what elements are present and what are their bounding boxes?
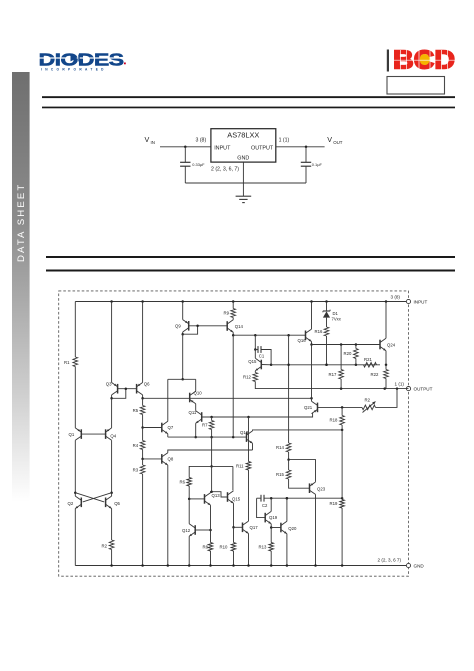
svg-text:1 (1): 1 (1) — [395, 381, 405, 386]
wire Q12 emitter to ground rail — [188, 536, 190, 565]
svg-text:Q10: Q10 — [194, 390, 203, 395]
svg-text:R15: R15 — [276, 472, 284, 477]
wire Q13 collector to Q15 base — [211, 492, 228, 497]
wire Q24 emitter to node Q — [385, 351, 387, 365]
svg-text:OUT: OUT — [333, 140, 343, 145]
transistor Q23 — [310, 482, 316, 494]
wire collector bus of Q7/Q9 — [168, 378, 196, 380]
svg-text:2 (2, 3, 6 7): 2 (2, 3, 6 7) — [378, 558, 402, 563]
resistor R5 — [140, 406, 145, 415]
svg-text:R16: R16 — [315, 329, 323, 334]
wire node J to Q23 emitter — [289, 460, 316, 482]
wire Q1 collector down — [74, 440, 76, 492]
svg-text:Q6: Q6 — [144, 381, 150, 386]
wire drive line node L to Q24 base — [312, 344, 381, 346]
wire Q15 base node — [261, 364, 271, 366]
resistor R16 — [324, 327, 329, 336]
wire Q16 emitter to node L — [311, 342, 313, 345]
resistor R4 — [140, 441, 145, 450]
svg-text:3 (8): 3 (8) — [391, 294, 401, 299]
svg-text:R19: R19 — [330, 501, 338, 506]
wire node E to Q7 base — [143, 427, 162, 429]
wire Q5 emitter to R2 — [111, 509, 113, 541]
resistor R6 — [187, 478, 192, 487]
capacitor C2 — [257, 497, 261, 499]
svg-text:R6: R6 — [180, 480, 186, 485]
wire divider column from Vref line — [288, 335, 290, 443]
transistor Q4 — [106, 428, 112, 440]
wire D1 to R16 — [326, 318, 328, 327]
wire Q7 emitter to bias line — [167, 434, 169, 437]
wire R11 to Q17 collector — [248, 470, 250, 521]
wire Vref column down — [232, 335, 234, 437]
svg-text:V: V — [145, 135, 150, 144]
wire R15 to Q23 base — [289, 479, 310, 488]
transistor Q9 — [183, 320, 189, 332]
svg-text:OUTPUT: OUTPUT — [251, 145, 274, 151]
svg-text:Q4: Q4 — [110, 433, 116, 438]
transistor Q1 — [75, 428, 81, 440]
wire Q9 collector down branch — [182, 334, 184, 379]
svg-text:R14: R14 — [276, 445, 284, 450]
transistor Q3 — [112, 383, 118, 395]
svg-text:7Vxx: 7Vxx — [332, 317, 342, 322]
wire R5 to node E — [142, 415, 144, 428]
resistor R12 — [253, 373, 258, 382]
wire Q18 collector to R18/R19 node — [253, 430, 343, 431]
svg-text:GND: GND — [414, 564, 425, 569]
svg-text:Q13: Q13 — [212, 493, 221, 498]
wire Q3 diode connection — [112, 389, 126, 399]
wire Q5 collector stub — [111, 493, 113, 496]
svg-text:R13: R13 — [259, 545, 267, 550]
svg-text:Q19: Q19 — [269, 515, 278, 520]
resistor R22 — [385, 365, 387, 370]
wire R7 bottom — [211, 430, 213, 438]
svg-text:Q17: Q17 — [250, 525, 259, 530]
svg-text:IN: IN — [151, 140, 155, 145]
resistor R9 — [231, 309, 236, 318]
wire Q7 collector riser — [167, 379, 169, 421]
svg-text:C2: C2 — [262, 503, 268, 508]
svg-text:R3: R3 — [133, 468, 139, 473]
svg-text:INPUT: INPUT — [414, 299, 428, 304]
wire Q8 emitter to ground rail — [167, 465, 169, 565]
wire node B to Q4 emitter — [111, 398, 113, 428]
wire Q13 base — [189, 498, 204, 500]
input terminal 3 (8) — [406, 299, 410, 303]
wire node L down to Q21 collector node — [311, 345, 313, 399]
gray DATA SHEET sidebar — [12, 72, 30, 502]
wire C2 left to Q19 base — [257, 498, 266, 517]
resistor R10 — [233, 527, 235, 542]
wire Q24 collector to rail — [385, 302, 387, 339]
svg-text:R8: R8 — [203, 545, 209, 550]
svg-text:OUTPUT: OUTPUT — [414, 387, 433, 392]
wire Q17 base — [234, 526, 243, 528]
wire corner down to Q15 collector — [232, 466, 234, 490]
wire node E to R4 — [142, 428, 144, 441]
transistor Q13 — [205, 493, 211, 505]
svg-text:DIODES: DIODES — [39, 50, 124, 70]
transistor Q17 — [243, 521, 249, 533]
svg-text:Q1: Q1 — [69, 432, 75, 437]
svg-text:0.1μF: 0.1μF — [312, 162, 323, 167]
wire R7 node down to error line — [211, 437, 213, 466]
wire Q18 emitter to Q8 collector line — [252, 443, 254, 450]
svg-text:3 (8): 3 (8) — [196, 137, 207, 143]
svg-text:Q5: Q5 — [114, 501, 120, 506]
wire Q15 emitter to R12 — [254, 371, 256, 373]
wire R19 to ground rail — [341, 508, 343, 566]
wire Q6/Q10 base line to Q21 collector — [143, 397, 312, 399]
resistor R2 — [109, 540, 114, 550]
transistor Q10 — [190, 391, 196, 403]
wire regulator output to VOUT — [276, 146, 325, 148]
svg-text:Q2: Q2 — [68, 501, 74, 506]
svg-text:2 (2, 3, 6, 7): 2 (2, 3, 6, 7) — [211, 167, 239, 173]
svg-text:V: V — [327, 135, 332, 144]
node rail junction C — [141, 300, 144, 303]
wire R8 to ground rail — [210, 551, 212, 566]
transistor Q19 — [265, 511, 271, 523]
wire bottom ground rail — [75, 565, 408, 567]
wire Q2 emitter to ground rail — [74, 509, 76, 566]
node rail junction A — [110, 300, 113, 303]
wire R9 to Q14 collector — [232, 318, 234, 320]
wire R12 to output line — [255, 382, 408, 389]
mid-page double rule — [46, 256, 455, 258]
svg-text:Q21: Q21 — [304, 405, 313, 410]
svg-text:Q16: Q16 — [298, 338, 307, 343]
svg-text:Q20: Q20 — [288, 526, 297, 531]
wire Q3-Q6 common base — [118, 388, 137, 390]
wire VIN to regulator input — [160, 146, 211, 148]
svg-text:Q11: Q11 — [189, 410, 197, 415]
ground terminal 2 (2,3,6,7) — [406, 563, 410, 567]
wire cross-couple Q2/Q5 — [75, 493, 104, 502]
svg-text:GND: GND — [237, 156, 249, 162]
svg-text:Q14: Q14 — [235, 324, 244, 329]
wire R6 bottom to Q13 base node — [188, 486, 190, 499]
wire R7 node to Q13 collector line — [211, 466, 213, 491]
wire R18 to node R — [341, 425, 343, 430]
svg-text:R1: R1 — [64, 360, 70, 365]
wire node F to R3 — [142, 459, 144, 465]
svg-text:R4: R4 — [133, 443, 139, 448]
capacitor 0.1uF output cap — [305, 147, 307, 163]
resistor R8 — [208, 543, 213, 552]
internal schematic dashed border — [59, 291, 409, 576]
zener diode D1 — [326, 302, 328, 312]
svg-text:R7: R7 — [202, 422, 208, 427]
wire C2 right to R19 top — [264, 497, 342, 499]
wire R2 to output line — [376, 389, 398, 408]
svg-text:DATA SHEET: DATA SHEET — [16, 183, 27, 262]
wire Q14 emitter corner — [232, 332, 234, 335]
wire Q13 emitter to R8 — [210, 505, 212, 542]
transistor Q7 — [162, 421, 168, 433]
transistor Q8 — [162, 453, 168, 465]
wire Q10 emitter to Q11 collector — [195, 404, 197, 411]
wire Q12 base to R8 node — [195, 529, 210, 531]
wire node J to R15 — [288, 460, 290, 470]
capacitor 0.33uF input cap — [184, 147, 186, 163]
wire reference line to output stage — [271, 364, 380, 366]
wire R14 to node J — [288, 452, 290, 460]
resistor R13 — [270, 528, 272, 543]
wire rail to R9 — [232, 302, 234, 309]
empty part-number box — [387, 77, 445, 95]
wire Q21 collector stub — [311, 398, 313, 401]
node rail junction P — [385, 300, 388, 303]
wire R2 to ground rail — [111, 550, 113, 566]
wire rail to Q3 emitter — [111, 302, 113, 383]
svg-text:C1: C1 — [259, 354, 265, 359]
wire left supply branch — [74, 302, 76, 358]
transistor Q5 — [106, 496, 112, 508]
svg-text:INCORPORATED: INCORPORATED — [41, 68, 107, 72]
wire Q4 collector down — [111, 440, 113, 492]
svg-text:AS78LXX: AS78LXX — [227, 130, 259, 139]
wire Q17 emitter to ground rail — [248, 534, 250, 566]
node rail junction H — [232, 300, 235, 303]
wire Q9-Q14 base line — [189, 325, 228, 327]
svg-text:0.33μF: 0.33μF — [192, 162, 205, 167]
svg-text:R11: R11 — [236, 463, 244, 468]
node rail junction M — [325, 300, 328, 303]
wire Q19 emitter to Q20 base — [270, 524, 272, 528]
svg-text:R18: R18 — [330, 418, 338, 423]
ground symbol — [242, 183, 244, 196]
wire rail to Q6 emitter — [142, 302, 144, 383]
wire Q20 collector riser — [286, 498, 288, 521]
output terminal 1 (1) — [406, 387, 410, 391]
resistor R14 — [286, 443, 291, 452]
transistor Q18 — [247, 431, 253, 443]
svg-text:R12: R12 — [243, 375, 251, 380]
wire Q11 emitter down — [195, 423, 197, 437]
svg-text:Q18: Q18 — [240, 430, 249, 435]
BCD logo — [387, 47, 456, 95]
node input junction — [184, 146, 187, 149]
node output junction — [305, 146, 308, 149]
transistor Q2 — [75, 496, 81, 508]
transistor Q20 — [281, 521, 287, 533]
svg-text:Q23: Q23 — [317, 486, 326, 491]
wire Q7 emitter bias line to Q18 base — [168, 436, 247, 438]
resistor R1 — [73, 357, 78, 367]
resistor R17 — [340, 345, 342, 370]
wire Q19 collector riser — [270, 498, 272, 511]
wire R3 to ground rail — [142, 474, 144, 566]
wire Q11 base bias line to Q21 emitter — [202, 413, 313, 417]
resistor R20 — [355, 345, 357, 349]
node rail junction G — [181, 300, 184, 303]
transistor Q11 — [196, 411, 202, 423]
svg-text:R22: R22 — [371, 372, 379, 377]
svg-text:R10: R10 — [220, 545, 228, 550]
resistor R3 — [140, 465, 145, 474]
transistor Q15 (pair) — [228, 491, 234, 503]
wire Vref tap down — [254, 335, 256, 349]
wire rail to Q9 emitter — [182, 302, 184, 320]
svg-text:Q15: Q15 — [248, 359, 257, 364]
wire to Q10 collector — [195, 379, 197, 391]
svg-text:D1: D1 — [333, 311, 339, 316]
wire ground rail — [185, 182, 306, 184]
transistor Q6 — [137, 383, 143, 395]
regulator U1 AS78LXX box — [211, 129, 276, 162]
wire down to Q12 collector — [188, 499, 190, 524]
wire Q3 collector to node B — [111, 395, 113, 398]
capacitor C1 — [255, 349, 258, 351]
wire Q15 emitter down to Q17 base node — [233, 503, 235, 527]
svg-text:R2: R2 — [365, 397, 371, 402]
wire node R down to R19 — [341, 430, 343, 500]
svg-text:Q7: Q7 — [168, 425, 174, 430]
wire Q2 collector stub — [74, 493, 76, 496]
svg-text:INPUT: INPUT — [214, 145, 231, 151]
svg-text:R17: R17 — [329, 372, 337, 377]
svg-text:R21: R21 — [364, 357, 372, 362]
svg-text:Q15: Q15 — [232, 497, 241, 502]
svg-text:R2: R2 — [102, 544, 108, 549]
transistor Q15 (miller) — [255, 358, 261, 370]
svg-text:Q9: Q9 — [175, 324, 181, 329]
svg-text:R9: R9 — [224, 311, 230, 316]
DIODES Incorporated logo — [39, 50, 126, 72]
header double rule — [42, 96, 455, 98]
wire error line R6 top — [189, 466, 233, 477]
svg-text:Q24: Q24 — [387, 343, 396, 348]
wire Q1-Q4 common base — [81, 433, 105, 435]
typical application circuit — [145, 129, 343, 203]
svg-text:R5: R5 — [133, 408, 139, 413]
wire Q23 collector to ground rail — [315, 494, 317, 565]
resistor R15 — [286, 470, 291, 479]
wire top supply rail — [75, 301, 408, 303]
wire R4 to node F — [142, 450, 144, 459]
wire R16 down to node N — [326, 336, 328, 365]
wire node D to R5 — [142, 398, 144, 405]
wire GND stem — [242, 162, 244, 183]
svg-text:1 (1): 1 (1) — [279, 137, 290, 143]
svg-text:Q3: Q3 — [106, 381, 112, 386]
svg-text:R20: R20 — [344, 351, 352, 356]
wire Q8 collector line to Q18 emitter — [168, 450, 253, 453]
wire R10 to ground rail — [233, 551, 235, 566]
wire R13 to ground rail — [270, 551, 272, 566]
resistor R18 — [341, 407, 343, 415]
wire node F to Q8 base — [143, 458, 162, 460]
wire R1 to Q1 emitter — [74, 367, 76, 428]
wire to Q15 collector — [254, 350, 256, 359]
wire Vref line Q14 emitter to Q16 base — [233, 334, 305, 336]
wire Q21 base to R18 and R2 — [318, 406, 363, 408]
node rail junction K — [310, 300, 313, 303]
transistor Q12 — [189, 524, 195, 536]
wire Q9 collector loop to base — [182, 332, 184, 334]
svg-text:Q12: Q12 — [182, 528, 191, 533]
transistor Q16 — [306, 329, 312, 341]
wire rail to Q16 collector — [311, 302, 313, 330]
wire Q20 emitter to ground rail — [286, 534, 288, 566]
transistor Q21 — [312, 401, 318, 413]
wire Q6 collector to node D — [142, 395, 144, 398]
svg-text:Q8: Q8 — [168, 456, 174, 461]
transistor Q24 series pass — [380, 338, 386, 350]
transistor Q14 — [227, 320, 233, 332]
